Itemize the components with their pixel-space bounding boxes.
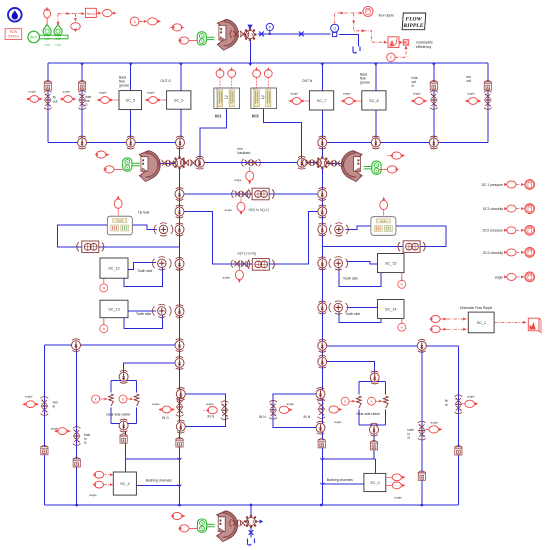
tank ms-out bbox=[484, 80, 491, 90]
wire hole-in-N column bbox=[421, 346, 423, 505]
svg-text:DC1 viscosity: DC1 viscosity bbox=[483, 207, 503, 211]
gain k volumetric bbox=[387, 46, 408, 62]
svg-text:angle: angle bbox=[467, 395, 475, 399]
rotary node chainR-7 bbox=[318, 355, 327, 368]
svg-text:Kinematic Flow Ripple: Kinematic Flow Ripple bbox=[460, 306, 493, 310]
svg-text:angle: angle bbox=[234, 178, 242, 182]
svg-text:Tooth side: Tooth side bbox=[137, 269, 152, 273]
wire SC_15 link bbox=[339, 262, 381, 287]
damper chainR IN N bbox=[318, 400, 326, 419]
signal path Q to flow ripple bbox=[335, 12, 388, 44]
svg-text:Tooth side: Tooth side bbox=[345, 312, 360, 316]
wire drain pump stub bbox=[250, 505, 252, 538]
angle source loop IN G bbox=[204, 402, 218, 414]
signal path to Mod bbox=[57, 12, 85, 26]
svg-text:k: k bbox=[390, 56, 392, 60]
svg-text:DC1: DC1 bbox=[215, 115, 222, 119]
motor top bbox=[197, 32, 206, 45]
spring-damper GE rung upper bbox=[232, 190, 251, 198]
tank chainR tail bbox=[318, 438, 325, 448]
label tip leak bbox=[138, 210, 150, 214]
wire GE rung lower bbox=[180, 212, 323, 264]
speed source mid-right bbox=[379, 166, 399, 173]
gear mesh left bbox=[173, 156, 186, 169]
damper hole-in-G bbox=[73, 427, 81, 446]
rotary node chainL-8 bbox=[176, 388, 185, 401]
speed source bottom bbox=[178, 525, 197, 532]
gear pump icon mid-left bbox=[140, 151, 161, 182]
sensors SC_4 bbox=[89, 471, 114, 497]
plotter icon bbox=[494, 318, 541, 333]
svg-text:backlash: backlash bbox=[238, 151, 251, 155]
signal mod output bbox=[96, 10, 116, 17]
wire left gear-side loop bbox=[111, 381, 137, 424]
svg-text:GE(i to N()-1): GE(i to N()-1) bbox=[249, 208, 269, 212]
rotary node gear-side R top bbox=[370, 371, 379, 384]
stiffness coil L1 bbox=[109, 394, 114, 406]
angle sensor GE lower bbox=[223, 267, 244, 283]
rotary node gear1 shaft bbox=[195, 156, 204, 169]
svg-text:angle: angle bbox=[117, 219, 124, 223]
label OUT G bbox=[161, 79, 172, 83]
signal stub SC14 w bbox=[401, 319, 403, 324]
svg-text:angle: angle bbox=[343, 92, 351, 96]
rotary node chainL-7 bbox=[175, 357, 184, 370]
svg-text:DC 1 pressure: DC 1 pressure bbox=[482, 183, 503, 187]
wire column SC_7 bbox=[321, 63, 323, 143]
angle source fb-out bbox=[26, 90, 43, 103]
wire left outer column bbox=[43, 345, 45, 505]
wire left cluster feed bbox=[124, 363, 180, 372]
signal line SC_5 input bbox=[114, 99, 120, 101]
torque sensor bottom bbox=[171, 512, 186, 519]
svg-text:Tip leak: Tip leak bbox=[138, 210, 150, 214]
block SC_15 bbox=[378, 254, 405, 273]
damper loop IN G bbox=[221, 401, 229, 420]
icon water drop logo bbox=[8, 8, 22, 22]
svg-text:angle: angle bbox=[223, 276, 231, 280]
rotary node chainR-3 bbox=[318, 223, 327, 236]
damper fb-in bbox=[455, 395, 463, 414]
label tooth side SC12 bbox=[137, 269, 152, 273]
rotary node chainR-6 bbox=[318, 339, 327, 352]
svg-text:in: in bbox=[53, 405, 56, 409]
svg-text:angle: angle bbox=[431, 421, 439, 425]
svg-text:Tooth side: Tooth side bbox=[343, 277, 358, 281]
label bushing channels R bbox=[327, 478, 353, 482]
gear ratio GE upper rung bbox=[247, 188, 274, 200]
label hole in N bbox=[408, 428, 414, 440]
label IN N loop bbox=[259, 415, 266, 419]
percent block bbox=[400, 40, 409, 45]
damper fb-out bbox=[44, 91, 52, 110]
drain hook bottom bbox=[247, 539, 254, 546]
torque sensor mid-left bbox=[95, 151, 110, 158]
svg-text:Bushing channels: Bushing channels bbox=[146, 479, 172, 483]
motor mid-right bbox=[372, 161, 381, 174]
rotary node gear-side R bottom bbox=[370, 423, 379, 436]
torque sensor mid-right bbox=[388, 152, 406, 159]
speed source top bbox=[148, 18, 161, 25]
label back flow groove L bbox=[119, 76, 129, 88]
svg-text:k: k bbox=[371, 400, 373, 404]
wire tip-leak right input bbox=[346, 226, 371, 229]
flow ripple gauge bbox=[363, 6, 373, 16]
label hole out N bbox=[412, 76, 418, 88]
svg-text:efficiency: efficiency bbox=[416, 45, 431, 49]
gain k circle R1 bbox=[341, 397, 355, 405]
block SC_8 bbox=[362, 91, 386, 110]
junction dots on drain bus bbox=[75, 504, 423, 507]
svg-text:groove: groove bbox=[360, 81, 370, 85]
svg-text:SC_1: SC_1 bbox=[476, 321, 486, 325]
signal line SC_7 input bbox=[305, 100, 309, 102]
block DC2 with sensors bbox=[251, 67, 277, 118]
block SC_12 bbox=[100, 258, 128, 278]
wire top supply bus bbox=[48, 62, 488, 64]
sensor row DC1 viscosity bbox=[483, 204, 535, 214]
rotary node chainR-1 bbox=[318, 188, 327, 201]
svg-text:IN N: IN N bbox=[304, 415, 311, 419]
rotary node chainL-4 bbox=[175, 257, 184, 270]
svg-text:SC_6: SC_6 bbox=[174, 99, 184, 103]
rotary node chainL-9 bbox=[176, 420, 185, 433]
check valve top-2 bbox=[298, 32, 306, 37]
rotary node chainL-2 bbox=[175, 205, 184, 218]
svg-text:angle: angle bbox=[467, 92, 475, 96]
sensor row DC 1 pressure bbox=[482, 180, 535, 190]
wire pump shaft right bbox=[322, 162, 341, 164]
svg-text:angle: angle bbox=[225, 208, 233, 212]
rotary node chainL-3 bbox=[175, 223, 184, 236]
wire DC2 to mesh node bbox=[264, 109, 302, 160]
svg-text:SC_14: SC_14 bbox=[385, 308, 397, 312]
svg-text:G: G bbox=[85, 103, 88, 107]
stiffness coil R2 bbox=[383, 396, 388, 408]
svg-text:Mod: Mod bbox=[87, 11, 95, 16]
svg-text:SC_12: SC_12 bbox=[108, 267, 120, 271]
rotary node lower bus R bbox=[417, 339, 426, 352]
label fb out bbox=[53, 96, 58, 104]
sensor row angle bbox=[495, 272, 535, 282]
svg-text:angle: angle bbox=[29, 90, 37, 94]
svg-text:DC2 viscosity: DC2 viscosity bbox=[483, 251, 503, 255]
label back flow groove R bbox=[360, 73, 370, 85]
rotary load R4 bbox=[318, 136, 327, 149]
label IN G loop bbox=[208, 415, 215, 419]
gain k block top bbox=[130, 17, 147, 26]
damper hole-out-G bbox=[78, 91, 86, 110]
label m/s backlash bbox=[238, 147, 251, 155]
signal duplicator bbox=[71, 23, 81, 33]
label fb in bbox=[445, 399, 448, 407]
svg-text:Tooth side: Tooth side bbox=[136, 312, 151, 316]
wire column hole-out-G bbox=[81, 63, 83, 143]
label hole in G bbox=[84, 433, 90, 445]
angle source m/s-in bbox=[22, 395, 39, 408]
rotary node chainR-5 bbox=[318, 301, 327, 314]
damper loop IN N bbox=[269, 400, 277, 419]
svg-text:IN G: IN G bbox=[208, 415, 215, 419]
tank gear-side R bbox=[370, 440, 377, 450]
gain k circle L1 bbox=[92, 395, 108, 403]
svg-text:angle: angle bbox=[25, 395, 33, 399]
spring-damper GE rung lower bbox=[231, 260, 250, 268]
svg-text:angle: angle bbox=[413, 92, 421, 96]
label DC1 bbox=[215, 115, 222, 119]
stiffness coil L2 bbox=[134, 394, 139, 406]
rotary node chainR-8 bbox=[316, 388, 325, 401]
svg-text:angle: angle bbox=[334, 420, 342, 424]
label hole out G bbox=[85, 95, 91, 107]
svg-text:in: in bbox=[445, 403, 448, 407]
angle source SC_6 bbox=[145, 91, 162, 104]
wire SC_12 link bbox=[124, 262, 163, 286]
sensor row DC2 pressure bbox=[483, 225, 535, 235]
angle source ms-out bbox=[465, 92, 482, 105]
spring-damper pump shaft L bbox=[159, 160, 178, 168]
block SC_6 bbox=[167, 91, 191, 109]
signal line SC_6 input bbox=[162, 99, 167, 101]
rotary load R2 bbox=[126, 136, 135, 149]
label tooth side SC15 bbox=[343, 277, 358, 281]
torque sensor top bbox=[170, 24, 184, 31]
angle source SC_7 bbox=[288, 92, 305, 105]
svg-text:OUT N: OUT N bbox=[302, 79, 313, 83]
signal stub SC15 w bbox=[401, 273, 403, 281]
spring-damper pump top bbox=[230, 30, 249, 38]
wire DC1 to mesh node bbox=[200, 109, 227, 160]
speed source mid-left bbox=[103, 166, 123, 173]
tank chainL tail bbox=[176, 437, 183, 447]
rotary node gear2 shaft bbox=[297, 156, 306, 169]
motor bottom bbox=[197, 519, 206, 532]
wire column fb-out bbox=[47, 63, 49, 143]
svg-text:SC_9: SC_9 bbox=[370, 481, 380, 485]
svg-text:angle: angle bbox=[89, 493, 97, 497]
sensor w SC_12 bbox=[100, 278, 108, 292]
damper chainL IN G bbox=[176, 398, 184, 417]
wot green assembly bbox=[28, 25, 68, 47]
svg-text:STATS: STATS bbox=[8, 35, 19, 39]
rotary load R1 on return bus bbox=[78, 136, 87, 149]
label ms out bbox=[467, 75, 472, 83]
svg-text:k: k bbox=[344, 400, 346, 404]
svg-text:1.00: 1.00 bbox=[55, 43, 61, 47]
arrow right of mesh bottom bbox=[258, 520, 263, 523]
gain k circle L2 bbox=[119, 395, 133, 403]
svg-text:N: N bbox=[408, 436, 411, 440]
wire backlash rung bbox=[200, 162, 322, 164]
rotary node lower bus L bbox=[72, 339, 81, 352]
damper hole-out-N bbox=[430, 91, 438, 110]
sensors SC_9 bbox=[386, 474, 406, 500]
motor mid-left bbox=[123, 158, 132, 171]
sensor w SC_13 bbox=[100, 319, 108, 333]
pressure gauge P bbox=[266, 23, 273, 35]
wire SC_9 column bbox=[374, 434, 376, 473]
flow ripple title box bbox=[402, 13, 426, 30]
label gear side radial R bbox=[356, 412, 380, 416]
check valve bottom-2 bbox=[249, 529, 254, 537]
tank fb-in bbox=[455, 445, 462, 455]
svg-text:WOT: WOT bbox=[30, 35, 37, 39]
wire GE rung upper bbox=[180, 193, 323, 195]
angle source chain IN G bbox=[152, 402, 175, 413]
junction arrows on supply bus bbox=[80, 63, 436, 65]
label bushing channels L bbox=[146, 479, 172, 483]
angle source hole-in-G bbox=[51, 427, 71, 435]
angle sensor GE upper bbox=[225, 199, 246, 215]
wire column SC_5 bbox=[130, 63, 132, 143]
wire right return bus bbox=[322, 142, 488, 144]
damper ms-out bbox=[484, 91, 492, 110]
wire right lower bus bbox=[322, 345, 458, 347]
torsion spring SC14 bbox=[329, 301, 348, 314]
wire left return bus bbox=[48, 142, 181, 144]
svg-text:k: k bbox=[134, 20, 136, 24]
angle source tip-leak R bbox=[380, 197, 388, 216]
wire right cluster feed bbox=[322, 362, 374, 373]
gear pump icon top bbox=[218, 19, 239, 50]
label gear side radial L bbox=[106, 413, 130, 417]
signal source throttle bbox=[44, 7, 51, 26]
wire right chain tail bbox=[321, 428, 323, 505]
svg-text:angle: angle bbox=[206, 402, 214, 406]
angle source SC_5 bbox=[97, 91, 114, 104]
wire column SC_8 bbox=[375, 63, 377, 143]
rotary node gear-side L bottom bbox=[119, 419, 128, 432]
torsion spring SC13 bbox=[152, 304, 171, 317]
tank hole-in-N bbox=[418, 471, 425, 481]
wire left chain tail bbox=[179, 427, 181, 505]
tank fb-out bbox=[44, 80, 51, 90]
svg-text:RUN: RUN bbox=[10, 30, 18, 34]
drain hook top bbox=[353, 47, 360, 54]
wire left IN-G loop bbox=[181, 394, 226, 427]
wire right outer column bbox=[457, 346, 459, 505]
svg-text:DC2 pressure: DC2 pressure bbox=[483, 229, 504, 233]
rotary load R6 bbox=[429, 136, 438, 149]
kinematic inputs bbox=[429, 316, 468, 333]
angle source chain IN N bbox=[329, 406, 342, 424]
svg-text:angle: angle bbox=[147, 91, 155, 95]
flow meter Q bbox=[331, 24, 339, 36]
rotary node chainL-1 bbox=[175, 188, 184, 201]
svg-text:1.00: 1.00 bbox=[44, 43, 50, 47]
tank gear-side L bbox=[120, 433, 127, 443]
wire right gear-side loop bbox=[359, 382, 386, 426]
gear mesh right bbox=[316, 156, 329, 169]
svg-text:OUT G: OUT G bbox=[161, 79, 172, 83]
svg-text:DC2: DC2 bbox=[252, 115, 259, 119]
label tooth side SC14 bbox=[345, 312, 360, 316]
svg-text:angle: angle bbox=[495, 275, 503, 279]
svg-text:angle: angle bbox=[51, 427, 59, 431]
wire SC_9 rung bbox=[322, 459, 375, 484]
svg-text:SC_4: SC_4 bbox=[120, 482, 130, 486]
tank hole-out-N bbox=[430, 80, 437, 90]
wire right gear shaft chain bbox=[321, 143, 323, 449]
label volumetric efficiency bbox=[416, 41, 433, 49]
svg-text:angle: angle bbox=[152, 402, 160, 406]
gear pump icon mid-right bbox=[341, 151, 362, 182]
block SC_13 bbox=[100, 300, 128, 318]
svg-text:G: G bbox=[84, 441, 87, 445]
angle sensor backlash bbox=[234, 167, 254, 185]
wire tip-leak left loop bbox=[58, 225, 180, 247]
svg-text:N: N bbox=[412, 84, 415, 88]
svg-text:k: k bbox=[95, 397, 97, 401]
svg-text:angle: angle bbox=[63, 90, 71, 94]
svg-text:angle: angle bbox=[287, 402, 295, 406]
svg-text:out: out bbox=[53, 100, 58, 104]
svg-text:SC_13: SC_13 bbox=[108, 307, 120, 311]
block tip leak left bbox=[107, 216, 132, 235]
rotary node chainL-5 bbox=[175, 305, 184, 318]
angle source loop IN N bbox=[279, 402, 294, 413]
block SC_7 bbox=[309, 91, 333, 110]
stiffness coil R1 bbox=[356, 396, 361, 408]
wire SC_13 link bbox=[124, 311, 163, 329]
wire SC_14 link bbox=[339, 308, 381, 323]
gear ratio GE right bbox=[398, 241, 425, 253]
rotary node chainL-6 bbox=[175, 339, 184, 352]
tank hole-in-G bbox=[73, 457, 80, 467]
svg-text:angle: angle bbox=[291, 92, 299, 96]
signal stub SC12 w bbox=[103, 278, 105, 284]
wire column ms-out bbox=[487, 63, 489, 143]
torsion spring SC12 bbox=[152, 257, 171, 270]
torsion spring tip-leak R bbox=[330, 223, 349, 236]
svg-text:IN G: IN G bbox=[162, 416, 169, 420]
svg-text:k: k bbox=[122, 397, 124, 401]
svg-text:SC_7: SC_7 bbox=[317, 99, 327, 103]
spring-damper pump shaft R bbox=[325, 160, 344, 168]
wire bottom drain bus bbox=[44, 504, 458, 506]
svg-text:angle: angle bbox=[394, 496, 402, 500]
label IN G chain bbox=[162, 416, 169, 420]
label DC2 bbox=[252, 115, 259, 119]
svg-text:Gear side radial: Gear side radial bbox=[356, 412, 380, 416]
spring-damper mesh-gear1 bbox=[180, 159, 199, 167]
label OUT N bbox=[302, 79, 313, 83]
svg-text:Bushing channels: Bushing channels bbox=[327, 478, 353, 482]
gear ratio GE left bbox=[77, 241, 104, 253]
wire right IN-N loop bbox=[273, 394, 320, 428]
svg-text:Gear side radial: Gear side radial bbox=[106, 413, 130, 417]
saturation block bbox=[388, 37, 399, 48]
svg-text:SC_15: SC_15 bbox=[385, 262, 397, 266]
block tip leak right bbox=[371, 217, 396, 236]
wire tip-leak left input bbox=[132, 225, 157, 229]
angle source tip-leak L bbox=[114, 196, 122, 216]
svg-text:volumetric: volumetric bbox=[416, 41, 433, 45]
svg-text:groove: groove bbox=[119, 84, 129, 88]
rotary node gear-side L top bbox=[119, 370, 128, 383]
spring-damper backlash bbox=[242, 159, 261, 167]
gear ratio GE lower rung bbox=[247, 259, 274, 271]
svg-text:IN N: IN N bbox=[259, 415, 266, 419]
sensor row DC2 viscosity bbox=[483, 248, 535, 258]
block DC1 with sensors bbox=[214, 67, 240, 118]
svg-text:angle: angle bbox=[380, 219, 387, 223]
angle source hole-out-G bbox=[60, 90, 77, 103]
block SC_4 bbox=[113, 472, 136, 495]
wire pump shaft left bbox=[160, 162, 180, 164]
label m/s in bbox=[53, 401, 59, 409]
svg-text:out: out bbox=[467, 79, 472, 83]
